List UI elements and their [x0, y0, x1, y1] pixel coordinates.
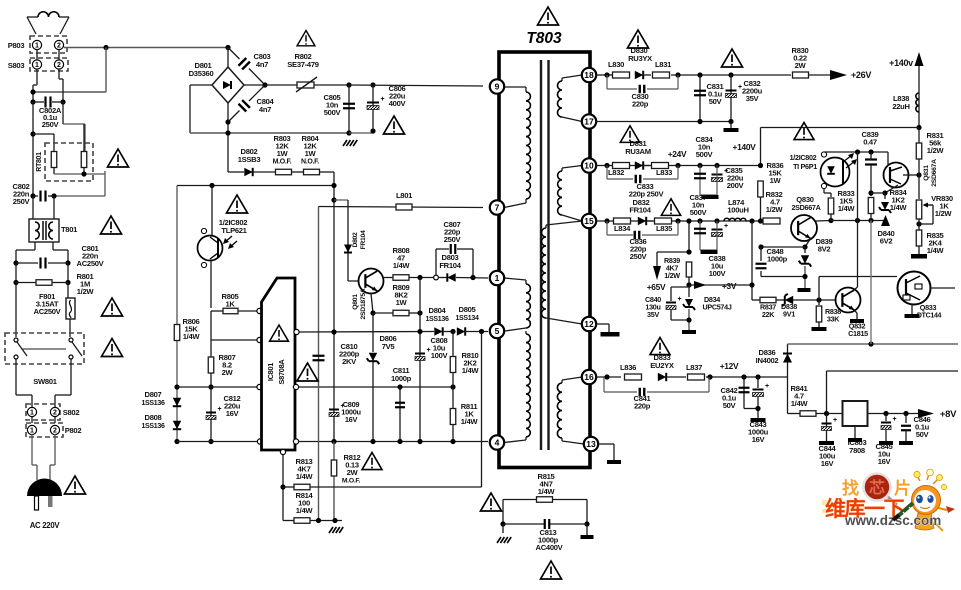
svg-text:芯: 芯 — [869, 478, 885, 497]
svg-text:AC400V: AC400V — [536, 543, 564, 552]
svg-text:9: 9 — [495, 81, 500, 91]
svg-text:1/4W: 1/4W — [838, 204, 856, 213]
svg-text:2W: 2W — [222, 368, 234, 377]
svg-text:16: 16 — [584, 372, 594, 382]
svg-text:+8V: +8V — [940, 409, 957, 420]
svg-text:1/4W: 1/4W — [393, 261, 411, 270]
svg-text:1/4W: 1/4W — [183, 332, 201, 341]
svg-text:RT801: RT801 — [36, 152, 43, 172]
svg-text:SW801: SW801 — [33, 377, 57, 386]
svg-text:+24V: +24V — [668, 149, 687, 159]
svg-text:D805: D805 — [459, 305, 477, 314]
svg-text:IC801: IC801 — [266, 363, 275, 381]
svg-text:D802: D802 — [352, 232, 359, 248]
svg-text:50V: 50V — [916, 430, 930, 439]
svg-text:SE37-479: SE37-479 — [287, 60, 318, 69]
svg-text:1/2W: 1/2W — [77, 287, 95, 296]
svg-text:+: + — [765, 383, 769, 390]
svg-text:0.47: 0.47 — [863, 138, 877, 147]
svg-text:RU3AM: RU3AM — [625, 147, 651, 156]
svg-text:+26V: +26V — [851, 70, 871, 80]
svg-text:6V2: 6V2 — [880, 237, 893, 246]
svg-text:1/2W: 1/2W — [927, 146, 945, 155]
svg-text:1/4W: 1/4W — [296, 506, 314, 515]
svg-text:M.O.F.: M.O.F. — [342, 478, 361, 485]
svg-text:L830: L830 — [608, 60, 624, 69]
svg-text:500V: 500V — [690, 208, 708, 217]
svg-text:250V: 250V — [444, 235, 462, 244]
svg-text:L832: L832 — [608, 168, 624, 177]
svg-text:500V: 500V — [696, 150, 714, 159]
svg-text:找: 找 — [842, 478, 859, 498]
svg-text:16V: 16V — [226, 409, 240, 418]
svg-text:1/4W: 1/4W — [538, 487, 556, 496]
svg-text:L801: L801 — [396, 191, 413, 200]
svg-text:100V: 100V — [431, 351, 449, 360]
svg-text:16V: 16V — [821, 459, 835, 468]
svg-text:220p: 220p — [632, 100, 649, 109]
svg-text:1000p: 1000p — [767, 255, 788, 264]
svg-text:M.O.F.: M.O.F. — [273, 159, 292, 166]
svg-text:2W: 2W — [795, 61, 807, 70]
svg-text:+: + — [218, 406, 222, 413]
svg-text:250V: 250V — [13, 197, 31, 206]
svg-text:2KV: 2KV — [342, 357, 357, 366]
svg-text:1/4W: 1/4W — [296, 472, 314, 481]
svg-text:1/4W: 1/4W — [462, 366, 480, 375]
svg-text:2: 2 — [57, 43, 61, 50]
svg-text:200V: 200V — [727, 181, 745, 190]
svg-text:N.O.F.: N.O.F. — [301, 159, 319, 166]
svg-text:2SD667A: 2SD667A — [931, 159, 938, 187]
svg-text:1SS136: 1SS136 — [141, 423, 165, 430]
svg-text:13: 13 — [586, 439, 596, 449]
svg-text:+65V: +65V — [647, 282, 666, 292]
svg-text:FR104: FR104 — [629, 206, 651, 215]
svg-text:1/2W: 1/2W — [766, 205, 784, 214]
svg-text:35V: 35V — [746, 94, 760, 103]
svg-text:1: 1 — [30, 428, 34, 435]
svg-text:S802: S802 — [63, 408, 80, 417]
svg-text:1: 1 — [495, 273, 500, 283]
svg-text:5: 5 — [495, 326, 500, 336]
svg-text:500V: 500V — [324, 108, 342, 117]
svg-text:C1815: C1815 — [848, 329, 868, 338]
svg-text:AC250V: AC250V — [77, 259, 105, 268]
svg-text:L834: L834 — [614, 224, 631, 233]
svg-text:1: 1 — [35, 43, 39, 50]
svg-text:S8708A: S8708A — [277, 359, 286, 385]
svg-text:1: 1 — [35, 62, 39, 69]
svg-text:1W: 1W — [770, 176, 782, 185]
svg-text:16V: 16V — [752, 435, 766, 444]
svg-text:+: + — [833, 417, 837, 424]
svg-text:T803: T803 — [526, 30, 562, 47]
svg-text:4n7: 4n7 — [256, 60, 268, 69]
svg-text:7: 7 — [495, 202, 500, 212]
svg-text:+: + — [678, 296, 682, 303]
svg-text:15: 15 — [584, 216, 594, 226]
svg-text:12: 12 — [584, 319, 594, 329]
svg-text:2: 2 — [53, 410, 57, 417]
svg-text:片: 片 — [894, 478, 911, 498]
svg-text:IN4002: IN4002 — [756, 356, 779, 365]
svg-text:100V: 100V — [709, 269, 727, 278]
svg-text:Q831: Q831 — [923, 165, 930, 181]
svg-text:1000p: 1000p — [391, 374, 412, 383]
svg-text:T801: T801 — [61, 225, 78, 234]
svg-text:1/4W: 1/4W — [791, 399, 809, 408]
svg-text:16V: 16V — [345, 415, 358, 424]
svg-text:250V: 250V — [630, 252, 648, 261]
svg-text:+: + — [381, 96, 385, 103]
svg-text:17: 17 — [584, 116, 594, 126]
svg-text:22K: 22K — [762, 310, 775, 319]
svg-text:FR104: FR104 — [360, 230, 367, 249]
svg-text:100uH: 100uH — [727, 206, 748, 215]
svg-text:L833: L833 — [656, 168, 672, 177]
svg-text:DTC144: DTC144 — [917, 313, 942, 320]
svg-text:1/2W: 1/2W — [935, 209, 953, 218]
svg-text:L836: L836 — [620, 363, 636, 372]
svg-text:RU3YX: RU3YX — [628, 54, 652, 63]
svg-text:L831: L831 — [655, 60, 672, 69]
svg-text:D35360: D35360 — [189, 69, 214, 78]
svg-text:33K: 33K — [827, 315, 840, 324]
svg-text:+: + — [724, 223, 728, 230]
svg-text:1/4W: 1/4W — [461, 417, 479, 426]
svg-text:+3V: +3V — [722, 281, 737, 291]
svg-text:AC250V: AC250V — [34, 307, 62, 316]
svg-text:2: 2 — [53, 428, 57, 435]
svg-text:4n7: 4n7 — [259, 105, 271, 114]
svg-text:Q801: Q801 — [352, 294, 359, 310]
svg-text:7V5: 7V5 — [382, 342, 396, 351]
svg-text:10: 10 — [584, 160, 594, 170]
svg-text:www.dzsc.com: www.dzsc.com — [844, 513, 941, 528]
svg-text:L837: L837 — [686, 363, 702, 372]
svg-text:4: 4 — [495, 437, 500, 447]
svg-text:D804: D804 — [429, 306, 447, 315]
svg-text:AC 220V: AC 220V — [30, 521, 61, 530]
svg-text:1: 1 — [30, 410, 34, 417]
svg-text:1/4W: 1/4W — [890, 203, 908, 212]
svg-text:1SS136: 1SS136 — [425, 316, 449, 323]
svg-text:P802: P802 — [65, 426, 82, 435]
svg-text:+: + — [893, 416, 897, 423]
svg-text:TLP621: TLP621 — [221, 226, 247, 235]
svg-text:2W: 2W — [347, 468, 359, 477]
svg-text:Q833: Q833 — [920, 303, 937, 312]
svg-text:FR104: FR104 — [439, 261, 461, 270]
svg-text:+140v: +140v — [889, 58, 913, 68]
svg-text:1/4W: 1/4W — [927, 246, 945, 255]
svg-text:1W: 1W — [277, 149, 289, 158]
svg-text:P803: P803 — [8, 41, 25, 50]
svg-text:8V2: 8V2 — [818, 245, 831, 254]
svg-text:1SS134: 1SS134 — [455, 315, 479, 322]
svg-text:18: 18 — [584, 70, 594, 80]
svg-text:1K: 1K — [225, 300, 235, 309]
svg-text:+12V: +12V — [720, 361, 739, 371]
svg-text:9V1: 9V1 — [783, 310, 795, 319]
svg-text:TI P6P1: TI P6P1 — [793, 162, 817, 171]
svg-text:400V: 400V — [389, 99, 407, 108]
svg-text:1W: 1W — [396, 298, 408, 307]
svg-text:1W: 1W — [305, 149, 317, 158]
svg-text:1/2IC802: 1/2IC802 — [790, 153, 817, 162]
svg-text:35V: 35V — [647, 310, 659, 319]
svg-text:L835: L835 — [656, 224, 673, 233]
svg-text:16V: 16V — [878, 457, 892, 466]
svg-text:UPC574J: UPC574J — [702, 303, 731, 312]
svg-text:22uH: 22uH — [892, 102, 909, 111]
svg-text:50V: 50V — [723, 401, 737, 410]
svg-text:250V: 250V — [42, 120, 60, 129]
svg-text:D808: D808 — [145, 413, 162, 422]
svg-text:S803: S803 — [8, 61, 25, 70]
svg-text:1SSB3: 1SSB3 — [238, 155, 261, 164]
svg-text:2SD1875A: 2SD1875A — [360, 288, 367, 319]
svg-text:EU2YX: EU2YX — [650, 361, 674, 370]
svg-text:D807: D807 — [145, 390, 162, 399]
svg-text:2SD667A: 2SD667A — [791, 203, 820, 212]
svg-text:7808: 7808 — [849, 446, 865, 455]
svg-text:1SS136: 1SS136 — [141, 400, 165, 407]
svg-text:1/2W: 1/2W — [664, 271, 680, 280]
svg-text:+140V: +140V — [733, 142, 757, 152]
svg-text:220p: 220p — [634, 402, 651, 411]
svg-text:50V: 50V — [709, 97, 723, 106]
svg-text:2: 2 — [57, 62, 61, 69]
